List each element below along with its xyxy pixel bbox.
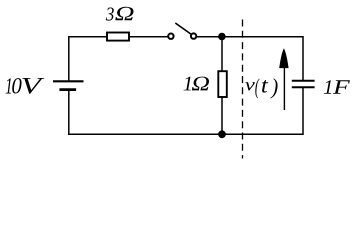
battery V1 long plate [53, 80, 84, 82]
arrow v(t) shaft [283, 66, 285, 110]
resistor R2 1ohm box [218, 71, 227, 97]
switch left terminal circle [168, 34, 173, 39]
wire bottom segment [69, 133, 303, 135]
wire left branch upper [68, 36, 70, 81]
node junction dot top [218, 33, 226, 41]
wire resistor-to-switch segment [129, 36, 168, 38]
capacitor C1 top plate [292, 80, 315, 82]
wire right branch upper [302, 36, 304, 81]
wire switch-to-top-right segment [197, 36, 303, 38]
switch right terminal circle [191, 33, 196, 38]
wire right branch lower [302, 87, 304, 135]
arrow v(t) head [279, 48, 288, 68]
battery V1 short plate [59, 88, 76, 91]
resistor R1 3ohm box [107, 33, 129, 41]
wire top-left segment [69, 36, 108, 38]
label v(t) [245, 78, 277, 98]
label 1F [324, 80, 350, 93]
wire middle branch upper [221, 37, 223, 72]
dashed cut line [242, 20, 244, 159]
capacitor C1 bottom plate [292, 86, 315, 88]
wire middle branch lower [221, 97, 223, 135]
label 10V [6, 78, 45, 94]
node junction dot bottom [218, 130, 226, 138]
label 3ohm [106, 7, 134, 21]
switch blade (open) [175, 23, 191, 34]
wire left branch lower [68, 90, 70, 135]
label 1ohm [183, 77, 209, 91]
